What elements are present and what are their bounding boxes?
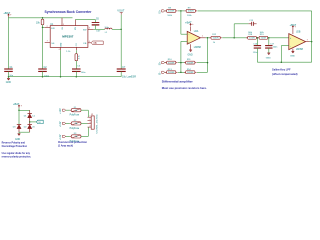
svg-text:Synchronous Buck Converter: Synchronous Buck Converter (45, 10, 92, 14)
svg-text:+BAT: +BAT (3, 11, 10, 15)
svg-text:1: 1 (202, 36, 203, 38)
svg-text:7: 7 (307, 39, 308, 41)
svg-text:Differential amplifier: Differential amplifier (162, 79, 194, 83)
svg-text:GND: GND (188, 55, 193, 57)
svg-text:1: 1 (90, 116, 91, 118)
svg-text:LM358: LM358 (194, 47, 202, 49)
svg-text:GND: GND (6, 82, 11, 84)
svg-text:100n: 100n (44, 76, 50, 78)
svg-text:CO: CO (76, 43, 78, 47)
svg-text:Sallen-Key LPF: Sallen-Key LPF (272, 68, 291, 72)
svg-text:+12V: +12V (59, 121, 62, 127)
svg-text:CONN_01X04: CONN_01X04 (96, 113, 98, 133)
svg-text:100k: 100k (248, 32, 252, 34)
svg-text:FB: FB (94, 43, 97, 45)
svg-text:PolyFuse: PolyFuse (70, 115, 80, 117)
svg-text:2: 2 (47, 26, 48, 28)
svg-text:+12V: +12V (59, 134, 62, 140)
svg-text:U2B: U2B (296, 32, 301, 34)
svg-text:2: 2 (90, 119, 91, 121)
svg-text:100k: 100k (260, 32, 264, 34)
svg-text:MP2307: MP2307 (62, 34, 74, 38)
svg-text:LM358: LM358 (296, 49, 304, 51)
svg-text:3: 3 (90, 122, 91, 124)
svg-text:reverse-polarity protection.: reverse-polarity protection. (2, 154, 32, 158)
svg-text:7: 7 (47, 41, 48, 43)
svg-text:GND: GND (60, 42, 62, 47)
svg-text:+12V: +12V (59, 108, 62, 114)
svg-text:5: 5 (63, 24, 64, 26)
svg-text:10u LowESR: 10u LowESR (122, 75, 136, 78)
svg-text:GND: GND (290, 56, 295, 58)
svg-text:4.7k: 4.7k (79, 55, 81, 59)
svg-text:PolyFuse: PolyFuse (70, 128, 80, 130)
svg-text:(offset compensated): (offset compensated) (272, 72, 298, 76)
svg-text:Overvoltage Protection: Overvoltage Protection (2, 144, 28, 148)
svg-text:Must use precision resistors h: Must use precision resistors here. (162, 86, 207, 90)
svg-text:(1 Amp each): (1 Amp each) (58, 144, 73, 148)
svg-text:EN: EN (51, 28, 54, 30)
svg-text:GND: GND (266, 58, 271, 60)
svg-text:4: 4 (90, 126, 91, 128)
svg-text:6: 6 (59, 49, 60, 51)
